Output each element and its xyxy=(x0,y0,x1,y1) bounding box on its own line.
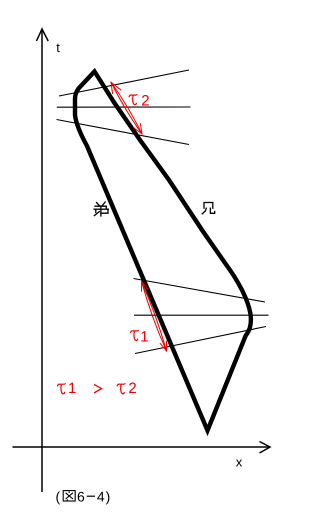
svg-text:6: 6 xyxy=(77,489,85,505)
red arrow tau1 (double-headed, along younger brother worldline) xyxy=(142,282,167,352)
svg-text:x: x xyxy=(236,455,243,470)
red arrow tau2 (double-headed, along elder brother worldline) xyxy=(111,82,142,134)
simultaneity line E (bottom fan, middle horizontal) xyxy=(134,314,269,316)
svg-text:2: 2 xyxy=(141,92,149,109)
simultaneity line A (top fan, upper) xyxy=(59,70,189,96)
svg-text:t: t xyxy=(56,40,60,55)
svg-text:1: 1 xyxy=(68,380,76,397)
x-axis xyxy=(13,442,271,454)
label 弟 (younger brother) drawn as strokes xyxy=(94,202,108,216)
label tau2 xyxy=(129,94,137,104)
simultaneity line D (bottom fan, upper) xyxy=(134,279,266,303)
label 兄 (elder brother) drawn as strokes xyxy=(202,203,215,214)
worldline loop (younger brother left, elder brother right) xyxy=(75,72,251,431)
svg-text:4: 4 xyxy=(97,489,105,505)
caption glyph 図 drawn as strokes xyxy=(63,491,75,501)
t-axis xyxy=(37,29,49,492)
svg-text:): ) xyxy=(106,489,111,505)
svg-text:(: ( xyxy=(56,489,61,505)
label tau1 xyxy=(130,330,138,340)
caption dash xyxy=(87,495,95,497)
simultaneity line C (top fan, lower) xyxy=(57,120,190,145)
simultaneity line F (bottom fan, lower) xyxy=(135,327,266,354)
svg-text:2: 2 xyxy=(128,380,136,397)
simultaneity line B (top fan, middle horizontal) xyxy=(57,106,191,108)
svg-text:1: 1 xyxy=(140,328,148,345)
red inequality tau1 > tau2 xyxy=(57,383,125,393)
